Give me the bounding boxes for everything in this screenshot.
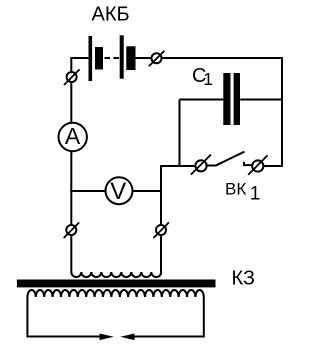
connector switch right (circle with slash) [252, 160, 263, 171]
switch ВК1 blade [208, 165, 216, 167]
wire battery right lead [136, 57, 152, 59]
switch ВК1 fixed contact [244, 162, 252, 165]
wire secondary left lead down [27, 297, 100, 337]
battery GB1 plate short 2 [126, 46, 135, 70]
connector X1 (circle with slash) [67, 72, 77, 82]
arrow left (movement direction) [100, 334, 114, 341]
wire junction to connector X3 [70, 191, 72, 225]
capacitor C1 plate right [234, 73, 240, 125]
ammeter A [58, 123, 86, 151]
wire C1 left lead [180, 99, 224, 101]
battery GB1 dashed link [105, 57, 111, 59]
svg-text:1: 1 [203, 69, 213, 89]
wire battery left lead [71, 58, 88, 72]
wire connector X3 to primary coil [70, 235, 72, 273]
battery GB1 plate long 1 [89, 36, 93, 81]
svg-text:АКБ: АКБ [92, 3, 130, 25]
wire ammeter to junction [70, 151, 72, 192]
wire voltmeter left lead [70, 190, 105, 192]
wire top rail [162, 57, 282, 59]
wire voltmeter right lead [133, 190, 162, 192]
voltmeter V [106, 177, 133, 204]
svg-text:А: А [65, 123, 81, 149]
arrow right (movement direction) [120, 334, 134, 341]
wire right bus [281, 57, 283, 167]
connector switch left (circle with slash) [195, 160, 206, 171]
connector X3 (circle with slash) [66, 225, 76, 235]
capacitor C1 plate left [223, 73, 230, 125]
svg-text:V: V [110, 178, 126, 205]
svg-text:ВК: ВК [225, 180, 246, 199]
inductor secondary winding [27, 290, 203, 297]
svg-text:КЗ: КЗ [232, 268, 256, 290]
wire secondary right lead down [134, 297, 204, 337]
wire left bus to ammeter [70, 82, 72, 123]
core bar КЗ (welded piece) [17, 280, 216, 288]
battery GB1 plate short 1 [95, 47, 103, 70]
wire C1 right lead [240, 99, 282, 101]
wire switch to right bus [263, 165, 283, 167]
wire connector X4 to primary coil [160, 235, 162, 273]
wire C1 branch down [179, 100, 181, 168]
battery GB1 plate long 2 [120, 35, 124, 78]
wire switch row left [161, 166, 196, 191]
svg-text:1: 1 [250, 183, 261, 204]
wire middle bus down [160, 191, 162, 225]
connector X4 (circle with slash) [156, 225, 166, 235]
inductor primary winding [71, 272, 161, 277]
connector X2 (circle with slash) [152, 53, 162, 63]
